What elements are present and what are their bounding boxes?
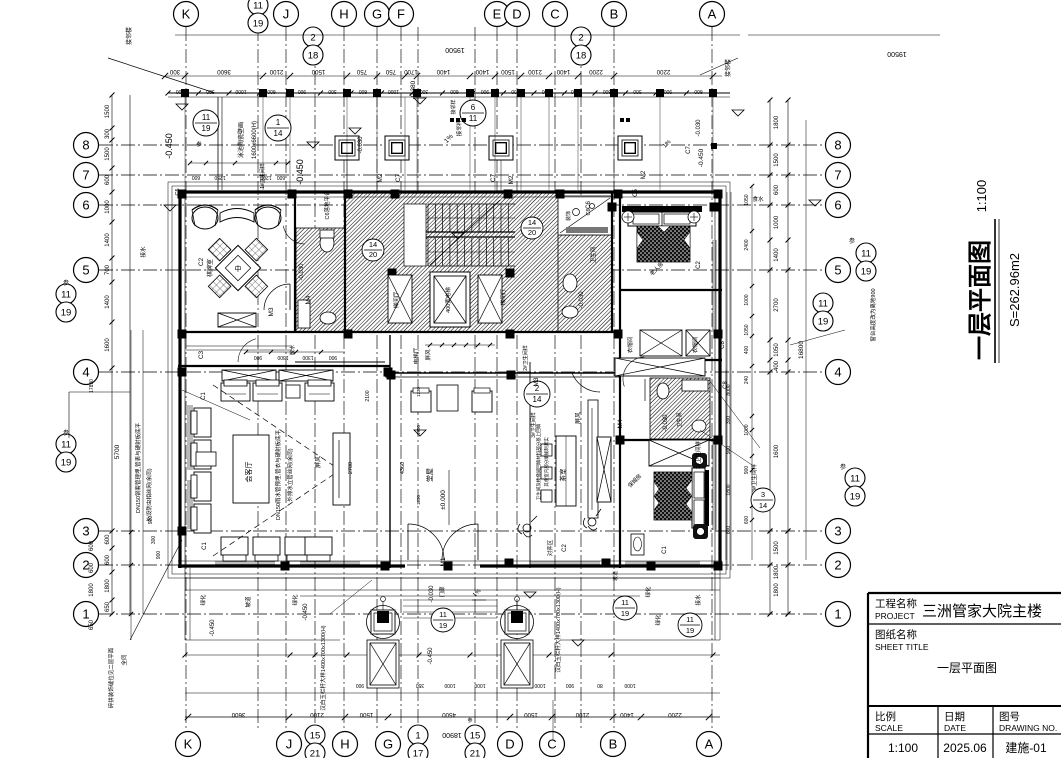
svg-text:14: 14 bbox=[759, 501, 767, 510]
svg-text:15: 15 bbox=[470, 731, 481, 742]
svg-text:C1: C1 bbox=[202, 542, 208, 550]
svg-text:M4: M4 bbox=[617, 419, 624, 428]
svg-text:DATE: DATE bbox=[944, 723, 966, 733]
svg-text:1400: 1400 bbox=[105, 295, 111, 309]
svg-text:1500: 1500 bbox=[774, 541, 780, 555]
svg-text:M2: M2 bbox=[377, 173, 384, 182]
svg-text:900: 900 bbox=[298, 88, 307, 94]
svg-text:5: 5 bbox=[834, 263, 841, 278]
svg-text:F: F bbox=[397, 7, 405, 22]
svg-text:1230: 1230 bbox=[416, 386, 421, 397]
svg-text:图号: 图号 bbox=[999, 711, 1020, 723]
svg-text:-0.030: -0.030 bbox=[663, 414, 669, 432]
svg-text:参: 参 bbox=[196, 140, 202, 148]
svg-text:3: 3 bbox=[834, 524, 841, 539]
svg-text:中: 中 bbox=[235, 264, 242, 273]
svg-text:坡道: 坡道 bbox=[244, 596, 252, 608]
svg-text:400: 400 bbox=[744, 346, 750, 355]
svg-text:C5: C5 bbox=[633, 189, 639, 197]
svg-text:C: C bbox=[550, 7, 559, 22]
svg-text:1950: 1950 bbox=[416, 424, 421, 435]
svg-text:K: K bbox=[184, 737, 193, 752]
svg-text:2100: 2100 bbox=[269, 68, 283, 75]
svg-text:1600: 1600 bbox=[774, 444, 780, 458]
svg-text:1400: 1400 bbox=[620, 711, 634, 718]
svg-text:C7: C7 bbox=[686, 146, 692, 154]
svg-text:-0.450: -0.450 bbox=[164, 133, 174, 159]
svg-text:11: 11 bbox=[61, 440, 71, 451]
svg-text:11: 11 bbox=[861, 249, 871, 260]
svg-text:S=262.96m2: S=262.96m2 bbox=[1007, 253, 1022, 327]
svg-text:1500: 1500 bbox=[105, 104, 111, 118]
svg-text:5: 5 bbox=[82, 263, 89, 278]
svg-text:1400: 1400 bbox=[556, 68, 570, 75]
svg-text:21: 21 bbox=[470, 749, 481, 759]
svg-text:11: 11 bbox=[818, 299, 828, 310]
svg-text:参: 参 bbox=[63, 429, 69, 437]
svg-text:B: B bbox=[609, 737, 618, 752]
svg-text:1050: 1050 bbox=[744, 324, 750, 335]
svg-text:-0.450: -0.450 bbox=[210, 619, 216, 637]
svg-text:M3: M3 bbox=[533, 377, 540, 386]
svg-text:11: 11 bbox=[850, 474, 860, 485]
svg-text:600: 600 bbox=[105, 174, 111, 185]
svg-text:700: 700 bbox=[105, 264, 111, 275]
svg-text:对弈区: 对弈区 bbox=[546, 539, 554, 556]
svg-text:外排水立管丝网(余同): 外排水立管丝网(余同) bbox=[286, 448, 294, 501]
svg-text:11: 11 bbox=[202, 113, 211, 122]
svg-text:G: G bbox=[383, 737, 393, 752]
svg-text:1800: 1800 bbox=[774, 583, 780, 597]
svg-text:比例: 比例 bbox=[875, 710, 896, 723]
svg-text:11: 11 bbox=[469, 114, 478, 123]
svg-text:汉白玉栏杆大样1400x700x1300(H): 汉白玉栏杆大样1400x700x1300(H) bbox=[554, 587, 562, 672]
svg-text:1250: 1250 bbox=[214, 174, 225, 180]
svg-text:300: 300 bbox=[328, 88, 337, 94]
svg-text:G: G bbox=[372, 7, 382, 22]
svg-text:17: 17 bbox=[413, 749, 424, 759]
svg-text:A: A bbox=[705, 737, 714, 752]
svg-text:19500: 19500 bbox=[445, 46, 465, 53]
svg-text:7: 7 bbox=[834, 168, 841, 183]
svg-text:C6: C6 bbox=[586, 201, 592, 209]
svg-text:-0.030: -0.030 bbox=[358, 136, 364, 154]
svg-text:1800: 1800 bbox=[774, 565, 780, 579]
svg-text:900: 900 bbox=[726, 446, 732, 455]
svg-text:1000: 1000 bbox=[444, 682, 455, 688]
svg-text:2100: 2100 bbox=[528, 68, 542, 75]
svg-text:2: 2 bbox=[578, 33, 583, 44]
svg-text:窗台高度改为离地900: 窗台高度改为离地900 bbox=[869, 288, 877, 341]
svg-text:1300: 1300 bbox=[302, 354, 313, 360]
svg-text:一层平面图: 一层平面图 bbox=[937, 661, 997, 675]
svg-text:2: 2 bbox=[834, 558, 841, 573]
svg-text:3: 3 bbox=[761, 490, 765, 499]
svg-text:-0.450: -0.450 bbox=[295, 159, 305, 185]
svg-text:80: 80 bbox=[597, 682, 603, 688]
svg-text:C7: C7 bbox=[490, 173, 497, 182]
svg-text:1800: 1800 bbox=[774, 115, 780, 129]
svg-text:C5: C5 bbox=[175, 188, 181, 195]
svg-text:梯间厅: 梯间厅 bbox=[499, 288, 507, 305]
svg-text:1230: 1230 bbox=[416, 494, 421, 505]
svg-text:1500: 1500 bbox=[501, 68, 515, 75]
svg-text:600: 600 bbox=[89, 540, 95, 551]
svg-text:-0.030: -0.030 bbox=[696, 119, 702, 137]
svg-text:2700: 2700 bbox=[348, 462, 354, 474]
svg-text:1050: 1050 bbox=[744, 194, 750, 205]
svg-text:14: 14 bbox=[274, 129, 283, 138]
svg-text:1500: 1500 bbox=[774, 153, 780, 167]
svg-text:接水: 接水 bbox=[694, 594, 702, 606]
svg-text:SHEET TITLE: SHEET TITLE bbox=[875, 642, 929, 652]
svg-text:1800: 1800 bbox=[89, 583, 95, 597]
svg-text:日期: 日期 bbox=[944, 711, 965, 723]
svg-text:梯间厅: 梯间厅 bbox=[392, 291, 400, 308]
svg-text:900: 900 bbox=[254, 354, 263, 360]
svg-text:1500: 1500 bbox=[311, 68, 325, 75]
svg-text:M2: M2 bbox=[641, 170, 647, 179]
svg-text:2100: 2100 bbox=[575, 711, 589, 718]
svg-text:1500: 1500 bbox=[359, 711, 373, 718]
svg-text:1000: 1000 bbox=[474, 682, 485, 688]
svg-text:1: 1 bbox=[82, 607, 89, 622]
svg-text:1: 1 bbox=[415, 731, 420, 742]
svg-text:2200: 2200 bbox=[668, 711, 682, 718]
svg-text:-0.450: -0.450 bbox=[428, 647, 434, 665]
svg-text:4: 4 bbox=[82, 365, 89, 380]
svg-text:绿化: 绿化 bbox=[644, 586, 652, 598]
svg-text:300: 300 bbox=[726, 416, 732, 425]
svg-text:装饰: 装饰 bbox=[565, 211, 572, 221]
svg-text:11: 11 bbox=[61, 290, 71, 301]
svg-text:DN150雨水管预埋,管衣与硬射板底平: DN150雨水管预埋,管衣与硬射板底平 bbox=[274, 429, 282, 520]
svg-text:一层平面图: 一层平面图 bbox=[967, 240, 994, 360]
svg-text:J: J bbox=[283, 7, 290, 22]
svg-text:-0.450: -0.450 bbox=[303, 603, 309, 621]
svg-text:B: B bbox=[610, 7, 619, 22]
svg-text:18900: 18900 bbox=[442, 731, 462, 738]
svg-text:600: 600 bbox=[192, 174, 201, 180]
svg-text:衣帽间: 衣帽间 bbox=[691, 337, 699, 354]
svg-text:C3: C3 bbox=[198, 350, 205, 359]
svg-text:3: 3 bbox=[82, 524, 89, 539]
svg-text:6: 6 bbox=[82, 198, 89, 213]
svg-text:2200: 2200 bbox=[656, 68, 670, 75]
svg-text:建施-01: 建施-01 bbox=[1005, 741, 1047, 755]
svg-text:19: 19 bbox=[850, 492, 861, 503]
svg-text:3#卫生间样: 3#卫生间样 bbox=[750, 463, 758, 492]
svg-text:棋牌室: 棋牌室 bbox=[206, 259, 214, 277]
svg-text:电梯厅: 电梯厅 bbox=[412, 347, 420, 364]
svg-text:1000: 1000 bbox=[774, 215, 780, 229]
svg-text:1000: 1000 bbox=[534, 682, 545, 688]
svg-text:11: 11 bbox=[253, 1, 263, 12]
svg-text:H: H bbox=[340, 737, 349, 752]
svg-text:M3: M3 bbox=[268, 307, 275, 316]
svg-text:1:100: 1:100 bbox=[974, 180, 989, 213]
svg-text:19: 19 bbox=[818, 317, 829, 328]
svg-text:1200: 1200 bbox=[260, 174, 271, 180]
svg-text:900: 900 bbox=[329, 354, 338, 360]
svg-text:19: 19 bbox=[861, 267, 872, 278]
svg-text:20: 20 bbox=[369, 250, 377, 259]
svg-text:1300: 1300 bbox=[277, 354, 288, 360]
svg-text:750: 750 bbox=[356, 68, 367, 75]
svg-text:8: 8 bbox=[82, 138, 89, 153]
svg-text:2: 2 bbox=[310, 33, 315, 44]
svg-text:2200: 2200 bbox=[589, 68, 603, 75]
svg-text:19: 19 bbox=[439, 621, 447, 630]
svg-text:19500: 19500 bbox=[887, 50, 907, 57]
svg-text:240: 240 bbox=[744, 376, 750, 385]
svg-text:K: K bbox=[182, 7, 191, 22]
svg-text:600: 600 bbox=[359, 88, 368, 94]
svg-text:绿化: 绿化 bbox=[654, 614, 662, 626]
svg-text:600: 600 bbox=[89, 562, 95, 573]
svg-text:坡道: 坡道 bbox=[612, 571, 619, 581]
svg-text:3600: 3600 bbox=[231, 711, 245, 718]
svg-text:-0.030: -0.030 bbox=[299, 263, 305, 281]
svg-text:19: 19 bbox=[686, 626, 694, 635]
svg-text:1500: 1500 bbox=[105, 147, 111, 161]
svg-text:600: 600 bbox=[744, 516, 750, 525]
svg-text:参: 参 bbox=[63, 279, 69, 287]
svg-text:全同: 全同 bbox=[120, 654, 128, 666]
svg-text:图纸名称: 图纸名称 bbox=[875, 628, 917, 641]
svg-text:14: 14 bbox=[528, 218, 536, 227]
svg-text:卫生间及楼梯间回填材料部分基上回填: 卫生间及楼梯间回填材料部分基上回填 bbox=[535, 423, 542, 500]
svg-text:1400: 1400 bbox=[105, 233, 111, 247]
svg-text:屏风: 屏风 bbox=[425, 349, 432, 361]
svg-text:14: 14 bbox=[533, 395, 542, 404]
svg-text:2025.06: 2025.06 bbox=[943, 741, 987, 755]
svg-text:其余室内部分填规制紧实: 其余室内部分填规制紧实 bbox=[543, 437, 550, 487]
svg-text:3600: 3600 bbox=[217, 68, 231, 75]
svg-text:4360: 4360 bbox=[400, 462, 406, 474]
svg-text:2700: 2700 bbox=[774, 298, 780, 312]
svg-text:1600: 1600 bbox=[105, 338, 111, 352]
svg-text:衣帽间: 衣帽间 bbox=[626, 337, 634, 354]
svg-text:600: 600 bbox=[105, 534, 111, 545]
svg-text:外设防虫相丝网(余同): 外设防虫相丝网(余同) bbox=[145, 468, 153, 521]
svg-text:茶室: 茶室 bbox=[558, 468, 567, 482]
svg-text:5700: 5700 bbox=[114, 444, 121, 459]
svg-text:600: 600 bbox=[450, 88, 459, 94]
svg-text:11: 11 bbox=[686, 615, 694, 624]
svg-text:1700: 1700 bbox=[404, 68, 418, 75]
svg-text:19: 19 bbox=[202, 124, 211, 133]
svg-text:1600x6600(H): 1600x6600(H) bbox=[252, 121, 258, 159]
svg-text:泳池陶瓷壁画: 泳池陶瓷壁画 bbox=[237, 122, 245, 158]
svg-text:食水: 食水 bbox=[752, 195, 764, 203]
svg-text:900: 900 bbox=[148, 516, 154, 525]
svg-text:900: 900 bbox=[566, 682, 575, 688]
svg-text:SCALE: SCALE bbox=[875, 723, 903, 733]
svg-text:门廊: 门廊 bbox=[438, 586, 446, 598]
svg-text:1000: 1000 bbox=[744, 294, 750, 305]
svg-text:1: 1 bbox=[276, 118, 281, 127]
svg-text:21: 21 bbox=[310, 749, 321, 759]
svg-text:4500: 4500 bbox=[442, 711, 456, 718]
svg-text:C6落地平台: C6落地平台 bbox=[323, 190, 331, 220]
svg-text:1000: 1000 bbox=[624, 682, 635, 688]
svg-text:18: 18 bbox=[308, 51, 319, 62]
svg-text:600: 600 bbox=[774, 184, 780, 195]
svg-text:DN150钢套管理埋,管表与硬射板底平: DN150钢套管理埋,管表与硬射板底平 bbox=[134, 422, 142, 513]
svg-text:4: 4 bbox=[834, 365, 841, 380]
svg-text:C7: C7 bbox=[395, 173, 402, 182]
svg-text:参: 参 bbox=[467, 717, 472, 724]
svg-text:PROJECT: PROJECT bbox=[875, 611, 915, 621]
svg-text:2100: 2100 bbox=[365, 390, 371, 401]
svg-text:2100: 2100 bbox=[310, 711, 324, 718]
svg-text:接水: 接水 bbox=[139, 246, 147, 258]
svg-text:11: 11 bbox=[621, 598, 629, 607]
svg-text:1400: 1400 bbox=[436, 68, 450, 75]
svg-text:-0.380: -0.380 bbox=[410, 80, 417, 99]
svg-text:1000: 1000 bbox=[235, 88, 246, 94]
svg-text:600: 600 bbox=[603, 88, 612, 94]
svg-text:接邻楼: 接邻楼 bbox=[724, 59, 732, 77]
svg-text:卫生间: 卫生间 bbox=[589, 247, 597, 264]
svg-text:300: 300 bbox=[151, 536, 157, 545]
svg-text:±0.000: ±0.000 bbox=[440, 490, 447, 510]
svg-text:1050: 1050 bbox=[774, 343, 780, 357]
svg-text:600: 600 bbox=[277, 174, 286, 180]
svg-text:1000: 1000 bbox=[388, 88, 399, 94]
svg-text:19: 19 bbox=[61, 308, 72, 319]
svg-text:汉白玉栏杆大样1400x700x1300(H): 汉白玉栏杆大样1400x700x1300(H) bbox=[319, 625, 327, 710]
svg-text:18: 18 bbox=[576, 51, 587, 62]
svg-text:C8: C8 bbox=[723, 381, 729, 389]
svg-text:900: 900 bbox=[356, 682, 365, 688]
svg-text:300: 300 bbox=[206, 88, 215, 94]
svg-text:2400: 2400 bbox=[744, 239, 750, 250]
svg-text:600: 600 bbox=[726, 526, 732, 535]
svg-text:1400: 1400 bbox=[475, 68, 489, 75]
svg-text:1:100: 1:100 bbox=[888, 741, 918, 755]
svg-text:A: A bbox=[708, 7, 717, 22]
svg-text:参: 参 bbox=[840, 463, 846, 471]
svg-text:300: 300 bbox=[169, 68, 180, 75]
svg-text:C: C bbox=[547, 737, 556, 752]
svg-text:600: 600 bbox=[694, 88, 703, 94]
svg-text:1800: 1800 bbox=[726, 484, 732, 495]
svg-text:H: H bbox=[339, 7, 348, 22]
svg-text:工程名称: 工程名称 bbox=[875, 597, 917, 610]
svg-text:J: J bbox=[286, 737, 293, 752]
svg-text:绿化: 绿化 bbox=[291, 594, 299, 606]
svg-text:三洲管家大院主楼: 三洲管家大院主楼 bbox=[922, 602, 1042, 620]
svg-text:碎拼装饰缝位见二层平面: 碎拼装饰缝位见二层平面 bbox=[107, 647, 115, 708]
svg-text:屏风: 屏风 bbox=[315, 456, 322, 468]
svg-text:350: 350 bbox=[416, 682, 425, 688]
svg-text:1: 1 bbox=[834, 607, 841, 622]
svg-text:DRAWING NO.: DRAWING NO. bbox=[999, 723, 1057, 733]
svg-text:400宽电梯: 400宽电梯 bbox=[444, 287, 452, 313]
svg-text:14: 14 bbox=[369, 240, 377, 249]
svg-text:600: 600 bbox=[267, 88, 276, 94]
svg-text:15: 15 bbox=[310, 731, 321, 742]
svg-text:屏风: 屏风 bbox=[575, 412, 582, 424]
svg-text:D: D bbox=[505, 737, 514, 752]
svg-text:接邻楼: 接邻楼 bbox=[125, 27, 133, 45]
svg-text:900: 900 bbox=[664, 88, 673, 94]
svg-text:300: 300 bbox=[633, 88, 642, 94]
svg-text:C1: C1 bbox=[662, 546, 668, 554]
svg-text:19: 19 bbox=[253, 19, 264, 30]
svg-text:7: 7 bbox=[82, 168, 89, 183]
svg-text:19: 19 bbox=[621, 609, 629, 618]
svg-text:19: 19 bbox=[61, 458, 72, 469]
svg-text:16800: 16800 bbox=[798, 341, 805, 359]
svg-text:1800: 1800 bbox=[105, 579, 111, 593]
svg-text:C2: C2 bbox=[696, 261, 702, 269]
svg-text:17890: 17890 bbox=[89, 379, 95, 393]
svg-text:M2: M2 bbox=[508, 175, 515, 184]
svg-text:3#卫生间样: 3#卫生间样 bbox=[694, 440, 702, 469]
svg-text:-0.450: -0.450 bbox=[698, 148, 705, 167]
svg-text:6: 6 bbox=[834, 198, 841, 213]
svg-text:20: 20 bbox=[528, 228, 536, 237]
svg-text:1500: 1500 bbox=[524, 711, 538, 718]
svg-text:-0.030: -0.030 bbox=[579, 291, 585, 309]
svg-text:参: 参 bbox=[849, 237, 855, 245]
svg-text:C8: C8 bbox=[720, 341, 726, 349]
svg-text:堂屋: 堂屋 bbox=[425, 468, 434, 482]
svg-text:600: 600 bbox=[105, 554, 111, 565]
svg-text:2#卫生间样: 2#卫生间样 bbox=[522, 345, 529, 371]
svg-text:900: 900 bbox=[744, 466, 750, 475]
svg-text:C2: C2 bbox=[562, 544, 568, 552]
svg-text:接邻样: 接邻样 bbox=[450, 99, 457, 114]
svg-text:300: 300 bbox=[105, 128, 111, 139]
svg-text:11: 11 bbox=[439, 610, 447, 619]
svg-text:D: D bbox=[512, 7, 521, 22]
svg-text:M4: M4 bbox=[305, 295, 312, 304]
svg-text:900: 900 bbox=[481, 88, 490, 94]
svg-text:1400: 1400 bbox=[774, 248, 780, 262]
svg-text:650: 650 bbox=[89, 619, 95, 630]
svg-text:650: 650 bbox=[105, 601, 111, 612]
svg-text:M1: M1 bbox=[440, 557, 447, 566]
svg-text:400: 400 bbox=[774, 360, 780, 371]
svg-text:绿化: 绿化 bbox=[199, 594, 207, 606]
svg-text:8: 8 bbox=[834, 138, 841, 153]
svg-text:卫生间: 卫生间 bbox=[676, 412, 683, 427]
svg-text:E: E bbox=[493, 7, 502, 22]
svg-text:会客厅: 会客厅 bbox=[244, 462, 253, 483]
svg-text:-0.030: -0.030 bbox=[429, 585, 435, 603]
svg-text:C2: C2 bbox=[198, 257, 205, 266]
svg-text:1000: 1000 bbox=[105, 200, 111, 214]
svg-text:750: 750 bbox=[385, 68, 396, 75]
svg-text:6: 6 bbox=[471, 103, 476, 112]
svg-text:900: 900 bbox=[156, 551, 162, 560]
